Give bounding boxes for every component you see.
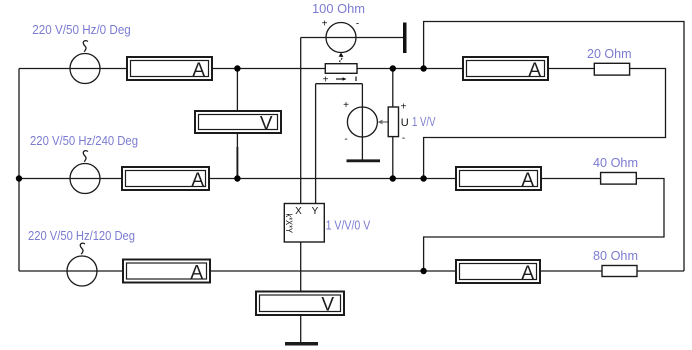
CCVS dependency arrowhead	[339, 53, 344, 57]
junction node row2 / VM1	[234, 175, 240, 181]
svg-text:220 V/50 Hz/0 Deg: 220 V/50 Hz/0 Deg	[32, 22, 131, 37]
wire AM5 to R40	[541, 178, 601, 180]
ammeter AM1	[127, 57, 212, 80]
resistor R80 body	[602, 266, 637, 277]
svg-text:A: A	[190, 263, 203, 284]
svg-text:1 V/V/0 V: 1 V/V/0 V	[326, 218, 371, 233]
svg-text:+: +	[322, 19, 328, 30]
wire R80 right	[637, 270, 684, 272]
svg-text:+: +	[323, 75, 329, 86]
svg-text:+: +	[343, 100, 349, 111]
resistor R20 body	[594, 63, 629, 75]
wire left neutral bus	[18, 69, 20, 272]
wire row3 middle segment	[210, 270, 456, 272]
AC source V3 circle	[67, 256, 97, 286]
svg-text:Y: Y	[312, 206, 319, 217]
wire voltmeter VM1 bottom stem	[236, 133, 238, 147]
AC source V1 squiggle	[83, 41, 88, 52]
svg-text:220 V/50 Hz/120 Deg: 220 V/50 Hz/120 Deg	[28, 228, 135, 243]
CCVS dependency squiggle	[340, 56, 343, 64]
svg-text:V: V	[260, 114, 273, 135]
junction node row1 / VM1	[234, 65, 240, 71]
voltmeter VM1	[195, 111, 281, 133]
svg-text:40 Ohm: 40 Ohm	[593, 155, 638, 170]
voltage sensor U body	[388, 107, 398, 137]
wire row1 tap up and across top	[424, 22, 684, 272]
svg-text:100 Ohm: 100 Ohm	[312, 1, 365, 16]
ammeter AM5	[456, 167, 541, 190]
svg-text:-: -	[402, 133, 405, 144]
ground (VM2)	[285, 342, 318, 346]
AC source V3 squiggle	[80, 243, 85, 254]
multiplier block body	[284, 204, 324, 243]
svg-text:+: +	[401, 102, 407, 113]
VCVS vertical wire through circle	[361, 84, 363, 160]
VCVS source circle	[347, 107, 377, 137]
ammeter AM2	[122, 167, 209, 190]
wire row2 left segment	[19, 178, 122, 180]
svg-text:U: U	[401, 117, 409, 129]
svg-text:k*X*Y: k*X*Y	[284, 214, 294, 234]
voltage sensor wire (row1 to row2)	[392, 69, 394, 179]
junction node neutral bus / row2	[16, 175, 22, 181]
ammeter AM3	[123, 260, 210, 283]
wire row3 left segment	[19, 270, 123, 272]
wire voltmeter VM1 bottom stem pin	[236, 147, 238, 179]
CCVS source circle	[326, 23, 356, 53]
svg-text:V: V	[321, 295, 334, 316]
junction node row2 / U sensor	[390, 175, 396, 181]
svg-text:A: A	[191, 170, 204, 191]
svg-text:20 Ohm: 20 Ohm	[587, 46, 632, 61]
CCVS sense arrow mark	[336, 78, 345, 80]
VCVS top wire	[316, 83, 363, 85]
ground (VCVS)	[347, 159, 381, 162]
svg-text:A: A	[528, 60, 541, 81]
junction node row1 / load tap	[420, 65, 426, 71]
svg-text:220 V/50 Hz/240 Deg: 220 V/50 Hz/240 Deg	[30, 133, 138, 148]
AC source V1 circle	[70, 54, 100, 84]
svg-text:1 V/V: 1 V/V	[412, 114, 436, 129]
svg-text:A: A	[521, 263, 534, 284]
wire CCVS to multiplier X input	[300, 38, 302, 204]
ammeter AM6	[456, 260, 540, 283]
CCVS current sense resistor body	[325, 64, 357, 74]
wire multiplier output	[300, 242, 302, 292]
CCVS XFMR1 output wire	[301, 37, 403, 39]
svg-text:A: A	[192, 60, 205, 81]
ground rotated (CCVS right terminal)	[403, 23, 407, 54]
junction node row3 / load tap	[420, 268, 426, 274]
wire R40 right and return to row3	[424, 179, 664, 272]
svg-text:-: -	[356, 19, 359, 30]
junction node row1 / U sensor	[390, 65, 396, 71]
wire VM2 ground stem	[300, 315, 302, 343]
wire R20 right and return to row2	[424, 69, 666, 179]
voltmeter VM2	[256, 292, 344, 316]
wire AM6 to R80	[540, 270, 602, 272]
wire voltmeter VM1 top stem	[236, 69, 238, 112]
CCVS sense tick mark	[355, 77, 357, 82]
wire VCVS to multiplier Y input	[315, 84, 317, 204]
AC source V2 circle	[70, 164, 100, 194]
junction node row2 / load tap	[420, 175, 426, 181]
wire row1 middle segment	[212, 68, 463, 70]
svg-text:X: X	[295, 206, 302, 217]
ammeter AM4	[463, 57, 548, 80]
wire AM4 to R20	[548, 68, 594, 70]
AC source V2 squiggle	[83, 151, 88, 162]
svg-text:80 Ohm: 80 Ohm	[593, 248, 638, 263]
resistor R40 body	[601, 173, 637, 185]
wire row1 left segment	[19, 68, 127, 70]
wire row2 middle segment	[209, 178, 456, 180]
VCVS dependency arrow	[381, 121, 388, 123]
svg-text:-: -	[344, 134, 347, 145]
svg-text:A: A	[521, 170, 534, 191]
